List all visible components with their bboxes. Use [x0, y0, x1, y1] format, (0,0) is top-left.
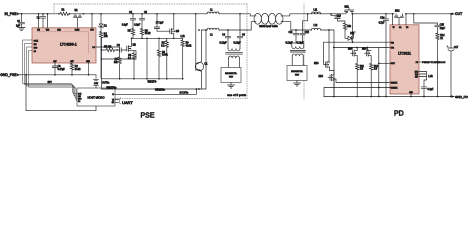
transformer T1 — [226, 49, 243, 68]
resistor R9 — [157, 38, 168, 79]
svg-text:3.3µF: 3.3µF — [134, 25, 141, 27]
svg-text:D1: D1 — [104, 25, 108, 27]
svg-text:C9: C9 — [242, 35, 246, 37]
svg-text:IN_PSE: IN_PSE — [4, 12, 17, 16]
svg-text:OUT: OUT — [455, 12, 462, 16]
node GND_PSE — [0, 73, 20, 77]
svg-text:3.3V: 3.3V — [94, 83, 99, 85]
resistor R14 — [436, 33, 445, 97]
capacitor C2 — [37, 14, 46, 28]
ground (PHY PD) — [294, 81, 301, 87]
wire GND_PSE rail — [20, 74, 96, 76]
svg-text:R6: R6 — [145, 30, 149, 32]
wire OUT0 sense stub — [91, 14, 93, 28]
svg-text:PD: PD — [394, 111, 404, 118]
wire LTC9111 lower-left pin wires — [334, 79, 390, 83]
svg-text:UART: UART — [122, 100, 133, 105]
transformer T11 — [290, 35, 305, 66]
svg-text:twisted pair cable: twisted pair cable — [259, 25, 278, 28]
transistor M12 — [395, 10, 404, 24]
svg-text:M3: M3 — [176, 31, 180, 33]
svg-text:HOST MICRO: HOST MICRO — [87, 95, 104, 99]
svg-text:LTC4296-1: LTC4296-1 — [60, 43, 77, 47]
resistor R6 — [140, 29, 151, 39]
inductor L11 — [312, 9, 322, 13]
inductor L1 — [207, 9, 219, 13]
svg-text:22µF: 22µF — [440, 28, 446, 30]
resistor R13 — [343, 23, 351, 30]
svg-text:M16: M16 — [362, 49, 367, 51]
svg-text:C17: C17 — [454, 47, 459, 49]
svg-text:PWRGD TO MCU/DC-DC: PWRGD TO MCU/DC-DC — [422, 62, 446, 64]
junction dots on PSE rail — [21, 13, 241, 15]
svg-text:4.7µF: 4.7µF — [378, 22, 385, 24]
capacitor C15 — [414, 14, 446, 33]
transistor M16 — [362, 48, 371, 61]
svg-text:3.3: 3.3 — [360, 69, 364, 71]
wire host SCCP line — [115, 89, 196, 94]
svg-text:10k: 10k — [104, 36, 109, 38]
svg-text:L2: L2 — [210, 35, 213, 37]
node IN_PSE — [4, 12, 20, 16]
wire pin PG to R7 — [96, 46, 120, 48]
capacitor C17 — [447, 14, 459, 97]
wire SPI bus bundle — [23, 40, 78, 101]
svg-text:43.2k: 43.2k — [145, 33, 151, 35]
IC U5 LTC9111 PD controller — [390, 25, 419, 94]
resistor R10 — [180, 36, 192, 79]
svg-text:M11: M11 — [345, 6, 350, 8]
inductor L2 — [207, 28, 219, 36]
wire LTC9111 GND stub — [410, 94, 412, 97]
capacitor C13 — [331, 14, 345, 23]
svg-text:24.3k: 24.3k — [75, 69, 81, 71]
svg-text:WIREN0s: WIREN0s — [155, 89, 166, 91]
svg-text:VP: VP — [393, 27, 395, 29]
wire WIREN0 bus — [102, 30, 207, 89]
svg-text:M1: M1 — [75, 10, 79, 12]
svg-text:OUT0s: OUT0s — [102, 82, 110, 84]
svg-text:SCCP0s: SCCP0s — [180, 93, 190, 95]
ground (C1) — [18, 28, 25, 31]
svg-text:GND_PSE: GND_PSE — [0, 73, 17, 77]
transistor M11 — [345, 6, 354, 14]
svg-text:WIREP0: WIREP0 — [148, 82, 158, 84]
svg-text:C12: C12 — [305, 32, 310, 34]
svg-text:LTC9111: LTC9111 — [398, 51, 411, 55]
svg-text:L11: L11 — [314, 9, 318, 11]
IC U2 10BASE-T1L PHY (PSE side) — [221, 68, 241, 83]
resistor R5b gate row — [102, 46, 118, 51]
svg-text:one of 5 ports: one of 5 ports — [227, 93, 246, 97]
capacitor C3 — [52, 63, 65, 75]
IC U4 10BASE-T1L PHY (PD side) — [287, 66, 307, 81]
svg-text:1.2k: 1.2k — [180, 36, 185, 38]
transistor M13 — [314, 30, 330, 71]
wire PD top rail — [307, 13, 452, 15]
svg-text:R9: R9 — [186, 42, 190, 44]
svg-text:10BASE-T1L: 10BASE-T1L — [225, 72, 238, 75]
resistor R2 — [70, 63, 81, 75]
svg-text:L12: L12 — [314, 25, 319, 27]
resistor R11 — [356, 60, 365, 97]
svg-text:M13: M13 — [314, 63, 319, 65]
wire dashed border one of 5 ports — [54, 4, 304, 99]
svg-text:OUT: OUT — [90, 30, 94, 32]
power supply host 3.3V — [94, 83, 99, 88]
svg-text:M14: M14 — [319, 76, 324, 78]
wire VPB line — [334, 47, 391, 49]
transistor M3 — [170, 14, 180, 39]
capacitor C16 — [421, 76, 434, 97]
resistor R8b (M3 source) — [161, 38, 168, 79]
capacitor C5 — [134, 12, 147, 29]
svg-text:C7 1µF: C7 1µF — [156, 23, 164, 25]
capacitor C9 — [234, 14, 246, 49]
svg-text:WIREP0s: WIREP0s — [107, 88, 118, 90]
wire VIN stubs — [39, 14, 48, 28]
resistor R7 — [114, 47, 121, 79]
svg-text:PHY: PHY — [295, 75, 300, 77]
ground (PHY PSE) — [228, 83, 235, 89]
svg-text:R2: R2 — [75, 66, 79, 68]
wire manifold — [132, 37, 183, 39]
resistor R1 — [59, 10, 70, 16]
svg-text:0.22µF: 0.22µF — [234, 43, 242, 45]
capacitor C1 — [16, 14, 25, 28]
capacitor C6 gate row — [117, 45, 127, 52]
wire GND pin dashed — [88, 63, 90, 75]
svg-text:GND_PD: GND_PD — [455, 95, 469, 99]
wire rail to VPA — [352, 14, 354, 42]
svg-text:M15: M15 — [348, 49, 353, 51]
inductor L12 — [312, 25, 322, 30]
wire LTC9111 SHDN line — [324, 88, 390, 97]
svg-text:SPI: SPI — [48, 80, 52, 84]
svg-text:6.49k: 6.49k — [162, 55, 168, 57]
zener diode D1 — [99, 14, 108, 32]
capacitor C8 — [220, 30, 231, 49]
IC U1 LTC4296-1 PSE controller — [32, 28, 96, 63]
svg-text:1k: 1k — [440, 38, 443, 40]
wire top PSE rail — [20, 13, 247, 15]
wire gate row link — [102, 58, 135, 60]
svg-text:PSE: PSE — [141, 112, 155, 119]
capacitor C4 — [122, 12, 136, 29]
transistor M2 — [127, 38, 137, 59]
twisted pair cable coils — [247, 13, 312, 30]
capacitor C12 — [286, 14, 310, 45]
svg-text:R11: R11 — [360, 66, 365, 68]
svg-text:0.22µF: 0.22µF — [220, 43, 228, 45]
svg-text:0.47µF: 0.47µF — [58, 69, 66, 71]
wire LTC9111 top stubs — [393, 14, 407, 25]
wire WIREP0 bus — [102, 39, 183, 79]
svg-text:0.1µF: 0.1µF — [428, 89, 435, 91]
svg-text:10k: 10k — [347, 26, 352, 28]
svg-text:R14: R14 — [440, 35, 445, 37]
resistor R8 — [128, 51, 136, 79]
resistor R5 — [128, 29, 135, 39]
svg-text:SET: SET — [415, 76, 418, 78]
svg-text:R8: R8 — [128, 55, 132, 57]
svg-text:PHY: PHY — [229, 77, 234, 79]
transistor M15 — [348, 48, 357, 61]
svg-text:M2: M2 — [133, 44, 137, 46]
wire riser — [146, 38, 148, 79]
node UART — [115, 98, 133, 105]
svg-text:C3: C3 — [58, 66, 62, 68]
capacitor C11 — [288, 30, 298, 35]
svg-text:L1: L1 — [210, 9, 213, 11]
capacitor C7 — [154, 14, 170, 31]
svg-text:C15: C15 — [440, 24, 445, 26]
svg-text:3.3: 3.3 — [374, 69, 378, 71]
transistor Q1 — [195, 14, 208, 89]
svg-text:C13: C13 — [337, 15, 342, 17]
svg-text:R1: R1 — [62, 10, 66, 12]
node OUT — [451, 12, 462, 16]
svg-text:R4: R4 — [104, 33, 108, 35]
wire PD bottom rail — [324, 96, 451, 98]
svg-text:1.3k: 1.3k — [428, 76, 433, 78]
svg-text:49.9k: 49.9k — [186, 45, 192, 47]
wire bridge sense column — [378, 48, 380, 97]
transistor M14 — [319, 71, 335, 97]
wire LTC9111 left pin SCLP — [379, 62, 390, 64]
svg-text:VPB: VPB — [391, 48, 394, 50]
IC U3 HOST MICRO — [77, 88, 115, 106]
svg-text:C14: C14 — [380, 18, 385, 20]
svg-text:10BASE-T1L: 10BASE-T1L — [291, 70, 304, 73]
wire lower port wire — [202, 29, 248, 31]
text PWRGD annotation — [419, 62, 446, 64]
node GND_PD — [451, 95, 469, 99]
svg-text:CS: CS — [78, 101, 80, 103]
svg-text:CLS: CLS — [415, 74, 418, 76]
wire PD bottom wire — [322, 30, 335, 97]
svg-text:R9: R9 — [162, 52, 166, 54]
transistor M1 (PSE protection FET) — [74, 10, 82, 28]
wire host ground loop — [26, 75, 96, 111]
ground chassis stub — [95, 75, 97, 80]
wire class pins chain — [419, 72, 427, 87]
diode D11 — [345, 30, 355, 40]
svg-text:C11: C11 — [288, 32, 293, 34]
resistor R4 — [99, 32, 108, 79]
resistor R12 — [370, 60, 379, 97]
wire VPA line — [324, 42, 391, 61]
svg-text:R12: R12 — [374, 66, 379, 68]
svg-text:M12: M12 — [395, 10, 400, 12]
svg-text:SCLP: SCLP — [391, 63, 395, 65]
svg-text:3.3µF: 3.3µF — [122, 25, 129, 27]
capacitor C14 — [378, 14, 388, 97]
